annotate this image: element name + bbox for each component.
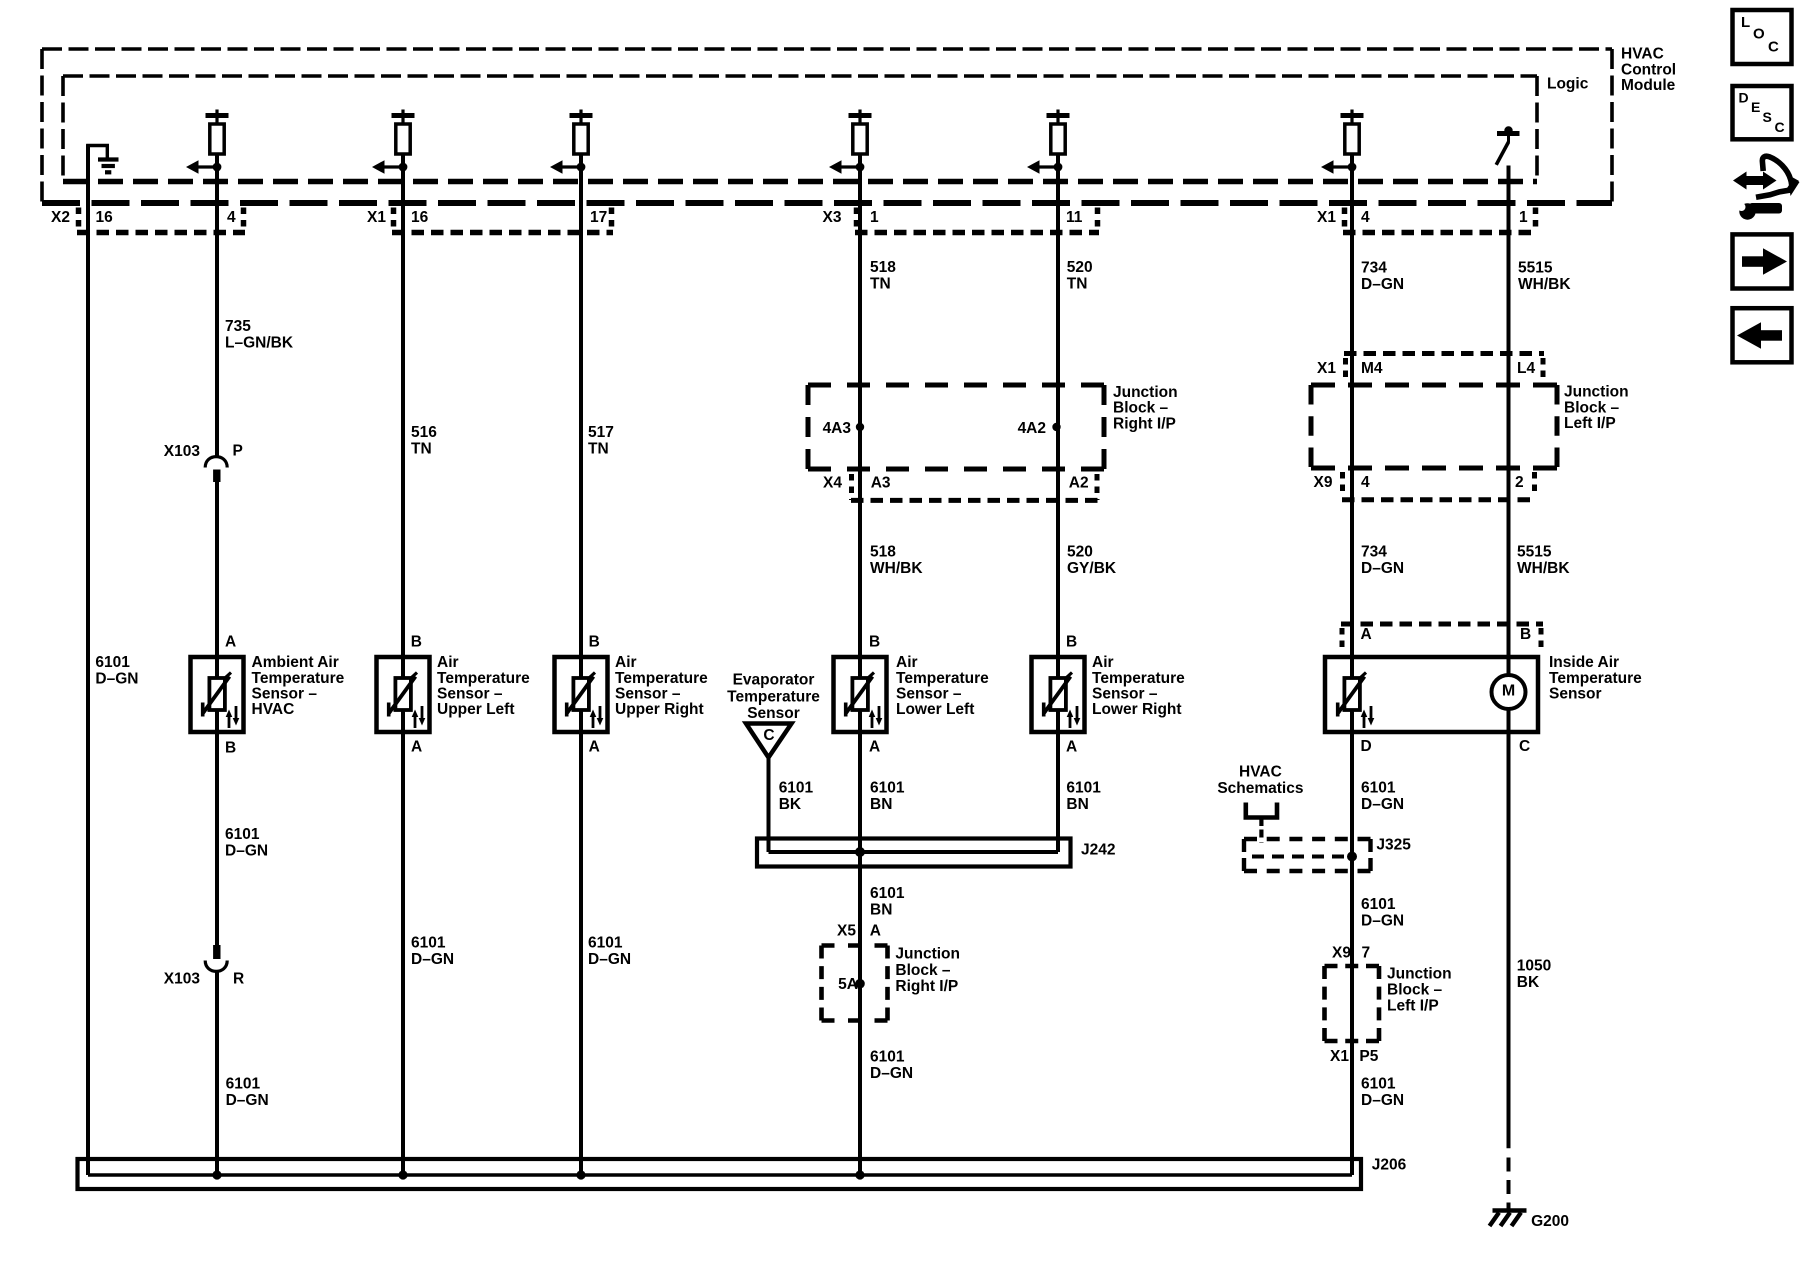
svg-text:C: C: [763, 727, 774, 744]
svg-text:A2: A2: [1069, 475, 1089, 492]
svg-text:J242: J242: [1081, 842, 1115, 859]
svg-text:O: O: [1753, 26, 1765, 43]
svg-text:BN: BN: [870, 796, 892, 813]
svg-text:Upper Left: Upper Left: [437, 701, 515, 718]
svg-text:Temperature: Temperature: [615, 670, 708, 687]
svg-text:D–GN: D–GN: [870, 1065, 913, 1082]
svg-text:Junction: Junction: [895, 946, 960, 963]
svg-text:4A2: 4A2: [1018, 420, 1046, 437]
svg-text:HVAC: HVAC: [1239, 764, 1282, 781]
svg-text:2: 2: [1515, 474, 1524, 491]
svg-text:11: 11: [1066, 209, 1083, 226]
svg-text:J325: J325: [1376, 837, 1411, 854]
svg-text:Sensor: Sensor: [747, 705, 800, 722]
svg-text:5515: 5515: [1518, 260, 1553, 277]
svg-text:D: D: [1739, 90, 1749, 106]
svg-text:16: 16: [96, 209, 114, 226]
svg-text:16: 16: [411, 209, 429, 226]
svg-text:M: M: [1502, 682, 1515, 699]
svg-text:1: 1: [870, 209, 879, 226]
svg-text:TN: TN: [870, 276, 891, 293]
svg-text:X1: X1: [1317, 360, 1336, 377]
svg-text:Logic: Logic: [1547, 76, 1589, 93]
svg-text:6101: 6101: [1361, 896, 1396, 913]
svg-text:Ambient Air: Ambient Air: [252, 654, 339, 671]
svg-text:D–GN: D–GN: [411, 951, 454, 968]
svg-text:X103: X103: [164, 443, 201, 460]
svg-text:Right I/P: Right I/P: [895, 978, 958, 995]
svg-text:BN: BN: [1066, 796, 1088, 813]
svg-text:A3: A3: [871, 475, 891, 492]
svg-text:D–GN: D–GN: [95, 671, 138, 688]
svg-text:B: B: [1520, 626, 1531, 643]
svg-text:X5: X5: [837, 923, 856, 940]
svg-text:4: 4: [1361, 209, 1370, 226]
svg-text:Lower Right: Lower Right: [1092, 701, 1182, 718]
svg-text:HVAC: HVAC: [1621, 46, 1664, 63]
svg-text:734: 734: [1361, 260, 1387, 277]
svg-text:A: A: [1066, 738, 1077, 755]
svg-text:BK: BK: [1517, 974, 1540, 991]
svg-text:B: B: [411, 634, 422, 651]
svg-text:Left I/P: Left I/P: [1387, 998, 1439, 1015]
svg-text:E: E: [1751, 99, 1760, 115]
svg-text:TN: TN: [588, 440, 609, 457]
svg-text:P5: P5: [1359, 1048, 1378, 1065]
svg-text:Evaporator: Evaporator: [733, 672, 815, 689]
svg-text:Sensor –: Sensor –: [615, 686, 681, 703]
svg-text:Temperature: Temperature: [252, 670, 345, 687]
svg-text:WH/BK: WH/BK: [1517, 560, 1570, 577]
svg-text:5515: 5515: [1517, 544, 1552, 561]
svg-text:6101: 6101: [1361, 780, 1396, 797]
svg-text:WH/BK: WH/BK: [870, 560, 923, 577]
svg-text:TN: TN: [411, 440, 432, 457]
svg-text:Sensor –: Sensor –: [437, 686, 503, 703]
svg-text:J206: J206: [1372, 1156, 1407, 1173]
svg-text:4: 4: [227, 209, 236, 226]
svg-text:Temperature: Temperature: [437, 670, 530, 687]
svg-text:X1: X1: [1317, 209, 1336, 226]
svg-text:Sensor –: Sensor –: [1092, 686, 1158, 703]
svg-text:D–GN: D–GN: [588, 951, 631, 968]
svg-text:C: C: [1519, 738, 1530, 755]
svg-text:X9: X9: [1314, 474, 1333, 491]
svg-text:X1: X1: [367, 209, 386, 226]
svg-text:Air: Air: [615, 654, 637, 671]
svg-text:S: S: [1763, 109, 1772, 125]
svg-text:6101: 6101: [225, 826, 260, 843]
svg-text:B: B: [1066, 634, 1077, 651]
svg-text:BK: BK: [779, 796, 802, 813]
svg-text:Block –: Block –: [1113, 400, 1169, 417]
svg-text:BN: BN: [870, 902, 892, 919]
svg-text:17: 17: [590, 209, 607, 226]
svg-text:Temperature: Temperature: [727, 688, 820, 705]
svg-text:6101: 6101: [779, 780, 814, 797]
svg-text:6101: 6101: [1361, 1076, 1396, 1093]
svg-text:L: L: [1741, 14, 1750, 31]
svg-text:D–GN: D–GN: [1361, 913, 1404, 930]
svg-text:A: A: [589, 738, 600, 755]
svg-text:518: 518: [870, 544, 896, 561]
svg-text:Block –: Block –: [1564, 399, 1620, 416]
svg-text:Sensor –: Sensor –: [252, 686, 318, 703]
svg-text:GY/BK: GY/BK: [1067, 560, 1117, 577]
svg-text:A: A: [225, 634, 236, 651]
svg-text:D–GN: D–GN: [1361, 276, 1404, 293]
svg-text:X9: X9: [1332, 944, 1351, 961]
svg-text:Junction: Junction: [1113, 384, 1178, 401]
svg-text:518: 518: [870, 259, 896, 276]
svg-text:Sensor –: Sensor –: [896, 686, 962, 703]
svg-text:Junction: Junction: [1564, 384, 1629, 401]
svg-text:L–GN/BK: L–GN/BK: [225, 335, 294, 352]
svg-text:Left I/P: Left I/P: [1564, 415, 1616, 432]
svg-text:D: D: [1361, 738, 1372, 755]
svg-text:Junction: Junction: [1387, 966, 1452, 983]
svg-text:Temperature: Temperature: [896, 670, 989, 687]
svg-text:Sensor: Sensor: [1549, 686, 1602, 703]
svg-text:Temperature: Temperature: [1092, 670, 1185, 687]
svg-text:Inside Air: Inside Air: [1549, 654, 1619, 671]
svg-text:Air: Air: [1092, 654, 1114, 671]
svg-text:TN: TN: [1067, 276, 1088, 293]
svg-text:B: B: [225, 739, 236, 756]
svg-text:M4: M4: [1361, 360, 1383, 377]
svg-text:G200: G200: [1531, 1213, 1569, 1230]
svg-text:HVAC: HVAC: [252, 701, 295, 718]
svg-text:7: 7: [1362, 944, 1371, 961]
svg-text:A: A: [870, 923, 881, 940]
svg-text:4: 4: [1361, 474, 1370, 491]
svg-text:516: 516: [411, 424, 437, 441]
svg-text:D–GN: D–GN: [1361, 1092, 1404, 1109]
svg-text:X3: X3: [823, 209, 842, 226]
svg-text:Upper Right: Upper Right: [615, 701, 704, 718]
svg-text:6101: 6101: [95, 654, 130, 671]
svg-text:D–GN: D–GN: [1361, 560, 1404, 577]
svg-text:Air: Air: [437, 654, 459, 671]
svg-text:A: A: [1361, 626, 1372, 643]
svg-text:520: 520: [1067, 259, 1093, 276]
svg-text:Right I/P: Right I/P: [1113, 415, 1176, 432]
svg-text:WH/BK: WH/BK: [1518, 276, 1571, 293]
svg-text:B: B: [869, 634, 880, 651]
svg-text:734: 734: [1361, 543, 1387, 560]
svg-text:X4: X4: [823, 475, 842, 492]
svg-text:6101: 6101: [411, 934, 446, 951]
svg-text:D–GN: D–GN: [1361, 796, 1404, 813]
svg-text:520: 520: [1067, 544, 1093, 561]
svg-text:735: 735: [225, 318, 251, 335]
svg-text:A: A: [869, 738, 880, 755]
svg-text:B: B: [589, 634, 600, 651]
svg-text:1050: 1050: [1517, 958, 1551, 975]
svg-text:A: A: [411, 738, 422, 755]
svg-text:C: C: [1775, 119, 1785, 135]
svg-text:P: P: [233, 442, 243, 459]
svg-text:Block –: Block –: [895, 962, 951, 979]
svg-text:6101: 6101: [1066, 780, 1101, 797]
svg-text:X103: X103: [164, 971, 201, 988]
svg-text:4A3: 4A3: [823, 420, 852, 437]
svg-text:Control: Control: [1621, 61, 1676, 78]
svg-text:Schematics: Schematics: [1217, 780, 1303, 797]
svg-text:6101: 6101: [226, 1076, 261, 1093]
svg-text:Temperature: Temperature: [1549, 670, 1642, 687]
svg-text:X2: X2: [51, 209, 70, 226]
svg-text:D–GN: D–GN: [226, 1092, 269, 1109]
svg-text:Block –: Block –: [1387, 982, 1443, 999]
svg-text:Module: Module: [1621, 77, 1676, 94]
svg-text:6101: 6101: [870, 1049, 905, 1066]
svg-text:517: 517: [588, 424, 614, 441]
svg-text:C: C: [1768, 39, 1779, 56]
svg-text:Lower Left: Lower Left: [896, 701, 974, 718]
svg-text:D–GN: D–GN: [225, 843, 268, 860]
svg-text:X1: X1: [1330, 1048, 1349, 1065]
svg-text:Air: Air: [896, 654, 918, 671]
svg-text:6101: 6101: [870, 885, 905, 902]
svg-text:1: 1: [1519, 209, 1528, 226]
svg-text:R: R: [233, 971, 244, 988]
svg-text:6101: 6101: [588, 934, 623, 951]
svg-text:5A: 5A: [838, 976, 858, 993]
svg-text:6101: 6101: [870, 780, 905, 797]
svg-text:L4: L4: [1517, 360, 1535, 377]
